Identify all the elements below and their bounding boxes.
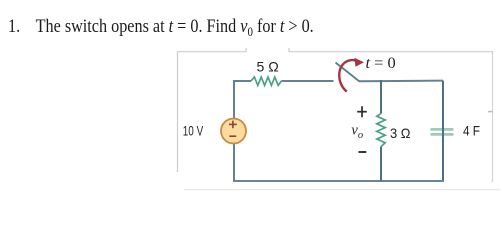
resistor R 3ohm zigzag bbox=[377, 114, 385, 147]
wire: middle branch lower bbox=[380, 147, 382, 181]
switch red arc bbox=[339, 60, 355, 92]
svg-text:t = 0: t = 0 bbox=[366, 55, 396, 72]
voltage source V1 circle bbox=[221, 119, 246, 144]
voltage source plus sign bbox=[229, 121, 237, 129]
svg-text:The switch opens at t = 0. Fin: The switch opens at t = 0. Find v0 for t… bbox=[36, 16, 314, 39]
svg-text:4 F: 4 F bbox=[463, 123, 480, 139]
switch red arrowhead bbox=[354, 58, 364, 67]
selection frame right edge bbox=[492, 54, 494, 182]
wire: top right segment bbox=[359, 80, 443, 83]
wire: left side lower bbox=[233, 144, 235, 182]
svg-text:10 V: 10 V bbox=[183, 123, 204, 139]
voltage source minus sign bbox=[229, 135, 236, 137]
resistor R 5ohm zigzag bbox=[251, 77, 281, 85]
svg-text:5 Ω: 5 Ω bbox=[257, 59, 279, 75]
wire: bottom bbox=[233, 180, 444, 182]
switch blade bbox=[336, 63, 360, 82]
svg-text:3 Ω: 3 Ω bbox=[390, 125, 411, 141]
wire: right side bbox=[442, 81, 444, 181]
wire: middle branch upper bbox=[380, 80, 382, 114]
svg-text:1.: 1. bbox=[8, 16, 20, 36]
problem statement text bbox=[8, 16, 314, 39]
wire: top middle segment to switch bbox=[281, 80, 333, 82]
selection frame bottom faint line bbox=[184, 189, 500, 191]
label plus of vo bbox=[357, 106, 367, 117]
wire: top left segment bbox=[234, 81, 251, 119]
label minus of vo bbox=[359, 151, 367, 153]
selection frame left edge bbox=[177, 54, 179, 172]
selection frame right-mid handle bbox=[488, 111, 493, 113]
selection frame top edge bbox=[178, 48, 493, 56]
svg-text:vo: vo bbox=[351, 123, 363, 141]
capacitor C 4F plates bbox=[431, 128, 454, 131]
